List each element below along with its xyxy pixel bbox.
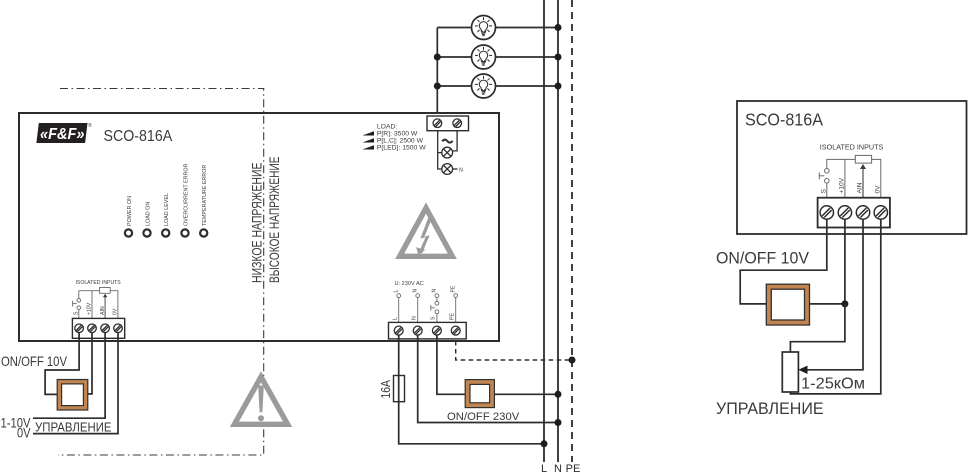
lamp E2	[472, 45, 496, 69]
screw terminal load right	[453, 119, 462, 128]
wire +10V right to switch	[810, 219, 845, 304]
screw terminal 0V right	[874, 206, 887, 219]
screw terminal N	[413, 326, 422, 335]
svg-text:PE: PE	[566, 463, 581, 473]
screw terminal AIN right	[856, 206, 869, 219]
svg-text:+10V: +10V	[838, 177, 845, 193]
screw terminal +10V right	[838, 206, 851, 219]
screw terminal S right	[820, 206, 833, 219]
svg-text:S: S	[431, 316, 437, 320]
junction dot N lamp1	[555, 24, 562, 31]
LED OVERCURRENT ERROR	[181, 163, 189, 236]
svg-text:1-25кОм: 1-25кОм	[801, 376, 865, 393]
wire N bus vertical	[557, 0, 559, 462]
svg-text:ISOLATED INPUTS: ISOLATED INPUTS	[820, 145, 884, 152]
svg-text:0V: 0V	[874, 185, 881, 194]
wire AIN to 1-10V	[33, 333, 105, 419]
junction dot lamp feed 3	[434, 83, 441, 90]
svg-text:SCO-816A: SCO-816A	[745, 110, 823, 130]
wire fuse to L bus	[399, 402, 544, 444]
lamp symbol internal 1	[442, 147, 453, 158]
LED LOAD ON	[143, 202, 151, 237]
device SCO-816A main box	[19, 113, 499, 341]
wire N to N bus	[418, 335, 558, 423]
wire lamp1 right	[496, 27, 559, 29]
svg-text:S: S	[820, 189, 827, 194]
lamp E3	[472, 74, 496, 98]
svg-text:«F&F»: «F&F»	[40, 126, 85, 143]
svg-text:LOAD:: LOAD:	[377, 124, 398, 131]
wire lamp3 left	[437, 85, 471, 87]
wire AIN internal left with arrow	[104, 297, 106, 319]
lamp symbol internal 2	[442, 164, 458, 175]
wire lamp3 right	[496, 85, 559, 87]
screw terminal PE	[451, 326, 460, 335]
screw terminal 0V	[114, 324, 123, 333]
screw terminal load left	[433, 119, 442, 128]
svg-text:ON/OFF 10V: ON/OFF 10V	[716, 249, 810, 268]
terminal block right	[818, 198, 890, 228]
wire +10V to external switch	[88, 333, 92, 394]
svg-text:L: L	[393, 317, 399, 320]
svg-text:PE: PE	[450, 313, 456, 320]
terminal leader PE	[454, 294, 458, 323]
dimming icon LC	[363, 138, 374, 142]
junction dot L	[541, 440, 548, 447]
wire PE bus vertical dashed	[571, 0, 573, 462]
svg-text:0V: 0V	[17, 426, 31, 441]
wire lamp feed vertical	[436, 28, 438, 119]
svg-text:PE: PE	[451, 285, 457, 292]
dimming icon LED	[363, 145, 374, 149]
junction dot N lamp2	[555, 54, 562, 61]
switch contact S internal right	[819, 169, 829, 198]
svg-text:N: N	[412, 316, 418, 320]
svg-text:УПРАВЛЕНИЕ: УПРАВЛЕНИЕ	[35, 421, 112, 435]
svg-text:SCO-816A: SCO-816A	[104, 128, 173, 145]
svg-text:НИЗКОЕ НАПРЯЖЕНИЕ: НИЗКОЕ НАПРЯЖЕНИЕ	[250, 163, 265, 284]
wire S to switch 230V	[437, 335, 465, 394]
svg-text:0V: 0V	[113, 308, 119, 315]
wire L bus vertical	[543, 0, 545, 462]
junction dot N switch	[555, 391, 562, 398]
wire AIN internal right with arrow	[862, 168, 864, 198]
svg-text:®: ®	[88, 122, 92, 129]
junction dot N lower	[555, 419, 562, 426]
terminal block LOAD	[427, 116, 469, 131]
resistor internal AIN left	[100, 288, 111, 294]
svg-text:N: N	[432, 289, 438, 293]
svg-text:ISOLATED INPUTS: ISOLATED INPUTS	[76, 280, 121, 286]
svg-text:U: 230V AC: U: 230V AC	[395, 281, 424, 287]
wire S to external switch	[45, 333, 79, 395]
wire 0V out	[33, 333, 118, 434]
device simplified box right	[737, 101, 967, 234]
dimming icon R	[363, 131, 374, 135]
terminal leader S with contact	[431, 294, 439, 323]
svg-text:LOAD ON: LOAD ON	[146, 202, 152, 226]
screw terminal AIN	[101, 324, 110, 333]
wire L to fuse	[398, 335, 400, 376]
svg-text:УПРАВЛЕНИЕ: УПРАВЛЕНИЕ	[716, 399, 824, 418]
fuse 16A	[394, 376, 405, 402]
svg-text:N: N	[413, 289, 419, 293]
warning triangle lightning	[400, 208, 453, 256]
switch ON/OFF 10V right brown	[766, 284, 809, 325]
terminal block mains	[389, 322, 467, 339]
wire lamp2 left	[437, 56, 471, 58]
svg-text:ON/OFF 10V: ON/OFF 10V	[1, 353, 68, 369]
svg-text:OVERCURRENT ERROR: OVERCURRENT ERROR	[184, 163, 190, 226]
screw terminal +10V	[88, 324, 97, 333]
svg-text:P[LED]: 1500 W: P[LED]: 1500 W	[377, 145, 426, 152]
svg-text:LOAD LEVEL: LOAD LEVEL	[164, 193, 170, 226]
svg-text:L: L	[541, 463, 547, 473]
wire S right to switch	[740, 219, 827, 304]
wire load internal left	[438, 131, 442, 153]
junction dot lamp feed 2	[434, 54, 441, 61]
svg-text:ON/OFF 230V: ON/OFF 230V	[447, 411, 520, 423]
svg-text:N: N	[459, 167, 463, 173]
wire AIN right wiper arrow	[807, 219, 864, 370]
LED TEMPERATURE ERROR	[200, 165, 208, 237]
svg-text:+10V: +10V	[87, 302, 93, 315]
svg-text:P[R]: 3500 W: P[R]: 3500 W	[377, 131, 418, 138]
switch ON/OFF 10V left brown	[57, 380, 88, 411]
svg-text:POWER ON: POWER ON	[127, 196, 133, 226]
wire 0V right to potentiometer bottom	[790, 219, 880, 394]
junction dot PE	[569, 357, 576, 364]
screw terminal L	[394, 326, 403, 335]
terminal leader N	[416, 294, 420, 323]
wire +10V to potentiometer top	[790, 304, 845, 352]
wire load internal right	[453, 131, 457, 151]
svg-text:TEMPERATURE ERROR: TEMPERATURE ERROR	[202, 165, 208, 226]
switch contact S internal left	[73, 299, 81, 319]
wire lamp1 left	[437, 27, 471, 29]
resistor internal AIN right	[855, 155, 871, 163]
lamp E1	[472, 16, 496, 40]
svg-text:AIN: AIN	[100, 306, 106, 315]
wire isolated inputs bus right	[827, 159, 856, 168]
svg-text:ВЫСОКОЕ НАПРЯЖЕНИЕ: ВЫСОКОЕ НАПРЯЖЕНИЕ	[267, 157, 282, 284]
potentiometer 1-25kOhm body	[782, 352, 798, 392]
terminal block isolated inputs left	[72, 318, 124, 338]
symbol AC tilde	[442, 140, 452, 143]
screw terminal S	[75, 324, 84, 333]
LED LOAD LEVEL	[162, 193, 170, 237]
wire PE dashed to PE bus	[456, 341, 572, 360]
svg-text:N: N	[554, 463, 562, 473]
separation line low/high voltage dash-dot	[58, 89, 264, 456]
junction dot +10V right	[841, 300, 848, 307]
svg-text:S: S	[74, 311, 80, 315]
wire switch 230V to N bus	[494, 393, 558, 395]
screw terminal S	[432, 326, 441, 335]
terminal leader L	[397, 294, 401, 323]
warning triangle exclamation	[234, 377, 287, 425]
F&F logo	[36, 122, 92, 143]
junction dot N lamp3	[555, 83, 562, 90]
svg-text:AIN: AIN	[857, 182, 864, 193]
switch ON/OFF 230V brown	[465, 380, 494, 408]
svg-text:P[L,C]: 2500 W: P[L,C]: 2500 W	[377, 138, 424, 145]
wire isolated inputs bus left	[79, 291, 100, 299]
svg-text:16A: 16A	[378, 380, 393, 399]
LED POWER ON	[125, 196, 133, 237]
svg-text:L: L	[394, 290, 400, 293]
wire lamp2 right	[496, 56, 559, 58]
